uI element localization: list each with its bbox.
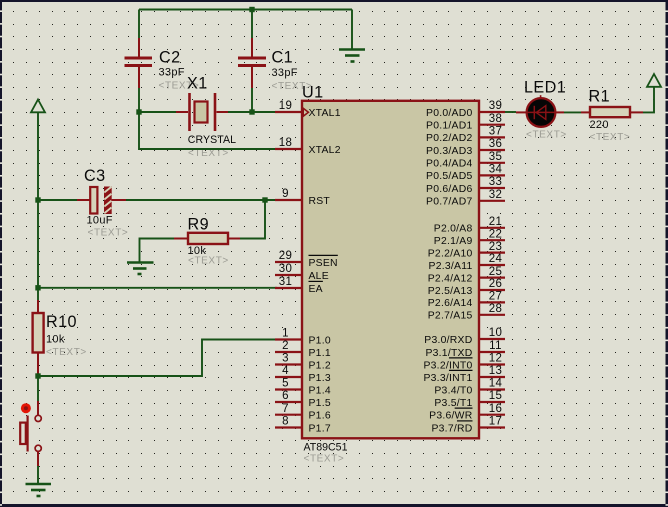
wire button node to P1.0 pin (staircase) <box>38 340 277 377</box>
label X1 <box>187 75 208 93</box>
push button switch <box>20 401 41 466</box>
XTAL1 clock input arrow on pin 19 <box>303 108 308 116</box>
svg-text:<TEXT>: <TEXT> <box>590 132 631 143</box>
svg-text:C3: C3 <box>84 167 106 185</box>
svg-text:29: 29 <box>279 250 293 262</box>
svg-text:10: 10 <box>489 327 503 339</box>
pin 26 P2.5/A13 (right) <box>428 278 505 297</box>
svg-text:28: 28 <box>489 303 503 315</box>
wire R1 to VCC arrow <box>643 87 654 112</box>
window border right with ruler ticks <box>666 0 668 507</box>
svg-text:R9: R9 <box>188 216 210 234</box>
wire pin39 to LED1 <box>505 111 516 113</box>
svg-text:14: 14 <box>489 378 503 390</box>
pin 3 P1.2 (left) <box>275 353 331 372</box>
svg-text:<TEXT>: <TEXT> <box>304 454 345 465</box>
value 33pF for C2 <box>159 67 185 79</box>
svg-text:P0.5/AD5: P0.5/AD5 <box>426 171 472 182</box>
pin 17 P3.7/RD (right) <box>431 416 505 435</box>
svg-text:27: 27 <box>489 291 503 303</box>
svg-text:P0.7/AD7: P0.7/AD7 <box>426 197 472 208</box>
button state indicator (red dot) <box>21 403 31 413</box>
label R9 <box>188 216 210 234</box>
ground (bottom left) <box>26 484 52 496</box>
svg-text:<TEXT>: <TEXT> <box>46 347 87 358</box>
svg-text:P1.2: P1.2 <box>309 360 331 371</box>
svg-text:PSEN: PSEN <box>309 258 338 269</box>
svg-text:<TEXT>: <TEXT> <box>526 130 567 141</box>
pin 19 XTAL1 (left) <box>275 100 341 119</box>
junction VCC rail to C3 <box>35 197 40 202</box>
svg-text:33: 33 <box>489 176 503 188</box>
junction RST node to R9 branch <box>262 197 267 202</box>
svg-text:P2.4/A12: P2.4/A12 <box>428 273 473 284</box>
svg-text:P3.4/T0: P3.4/T0 <box>434 385 472 396</box>
pin 11 P3.1/TXD (right) <box>425 340 505 359</box>
svg-text:P1.3: P1.3 <box>309 373 331 384</box>
svg-text:10uF: 10uF <box>87 215 113 227</box>
capacitor C3 (electrolytic 10uF) <box>77 187 126 215</box>
svg-text:<TEXT>: <TEXT> <box>88 228 129 239</box>
text placeholder for C3 <box>88 228 129 239</box>
pin 29 PSEN (left) <box>275 250 338 269</box>
svg-text:3: 3 <box>282 353 289 365</box>
crystal X1 <box>176 93 228 131</box>
svg-text:P2.3/A11: P2.3/A11 <box>429 261 473 272</box>
label C2 <box>159 49 181 67</box>
pin 38 P0.1/AD1 (right) <box>426 113 505 132</box>
svg-text:P0.0/AD0: P0.0/AD0 <box>426 108 472 119</box>
svg-text:32: 32 <box>489 189 503 201</box>
wire R10/button node down to button <box>37 376 39 401</box>
value 220 for R1 <box>590 119 609 131</box>
svg-text:P3.0/RXD: P3.0/RXD <box>424 335 472 346</box>
label C1 <box>272 49 294 67</box>
pin 33 P0.6/AD6 (right) <box>426 176 505 195</box>
svg-text:39: 39 <box>489 100 503 112</box>
pin 10 P3.0/RXD (right) <box>424 327 505 346</box>
svg-text:12: 12 <box>489 353 503 365</box>
wire VCC rail to EA pin <box>38 287 277 289</box>
pin 14 P3.4/T0 (right) <box>434 378 505 397</box>
window border bottom <box>0 504 668 507</box>
pin 6 P1.5 (left) <box>275 390 331 409</box>
pin 36 P0.3/AD3 (right) <box>426 138 505 157</box>
label C3 <box>84 167 106 185</box>
svg-text:P2.5/A13: P2.5/A13 <box>428 286 473 297</box>
LED D1 LED1 <box>516 95 564 127</box>
pin 16 P3.6/WR (right) <box>429 403 505 422</box>
svg-text:XTAL1: XTAL1 <box>309 108 341 119</box>
value AT89C51 for U1 <box>304 442 348 454</box>
svg-text:11: 11 <box>489 340 502 352</box>
svg-text:U1: U1 <box>302 84 324 102</box>
svg-text:XTAL2: XTAL2 <box>309 145 341 156</box>
svg-text:5: 5 <box>282 378 289 390</box>
label R10 <box>46 313 77 331</box>
svg-text:P1.4: P1.4 <box>309 385 331 396</box>
text placeholder for C1 <box>272 81 313 92</box>
wire crystal right to XTAL1 pin <box>228 111 277 113</box>
value CRYSTAL for X1 <box>188 134 236 146</box>
svg-text:P3.5/T1: P3.5/T1 <box>434 398 472 409</box>
svg-text:P2.7/A15: P2.7/A15 <box>428 311 473 322</box>
svg-text:6: 6 <box>282 390 289 402</box>
svg-text:C1: C1 <box>272 49 294 67</box>
pin 39 P0.0/AD0 (right) <box>426 100 505 119</box>
svg-text:1: 1 <box>282 328 289 340</box>
svg-text:33pF: 33pF <box>272 67 298 79</box>
svg-text:7: 7 <box>282 403 289 415</box>
svg-text:P3.7/RD: P3.7/RD <box>431 423 472 434</box>
pin 2 P1.1 (left) <box>275 340 331 359</box>
wire C2 bottom lead to crystal node <box>138 88 140 112</box>
pin 9 RST (left) <box>275 188 330 207</box>
pin 23 P2.2/A10 (right) <box>428 241 505 260</box>
svg-text:R1: R1 <box>589 88 611 106</box>
svg-text:34: 34 <box>489 164 503 176</box>
label LED1 <box>524 79 566 97</box>
svg-text:10k: 10k <box>46 334 65 346</box>
value 10k for R10 <box>46 334 65 346</box>
svg-text:9: 9 <box>282 188 289 200</box>
ground (below R9) <box>127 263 154 275</box>
wire R9 left lead to ground <box>140 239 175 262</box>
pin 12 P3.2/INT0 (right) <box>423 353 505 372</box>
pin 7 P1.6 (left) <box>275 403 331 422</box>
pin 27 P2.6/A14 (right) <box>428 291 505 310</box>
pin 8 P1.7 (left) <box>275 416 331 435</box>
svg-text:26: 26 <box>489 278 503 290</box>
svg-text:30: 30 <box>279 263 293 275</box>
svg-text:P0.4/AD4: P0.4/AD4 <box>426 159 472 170</box>
pin 21 P2.0/A8 (right) <box>434 216 505 235</box>
pin 32 P0.7/AD7 (right) <box>426 189 505 208</box>
capacitor C2 <box>125 57 153 89</box>
wire VCC rail to C3 left lead <box>38 199 77 201</box>
pin 37 P0.2/AD2 (right) <box>426 126 505 145</box>
svg-text:X1: X1 <box>187 75 208 93</box>
svg-text:P3.2/INT0: P3.2/INT0 <box>423 360 472 371</box>
window border top <box>0 0 668 2</box>
junction at crystal left node <box>136 109 141 114</box>
wire crystal left to C2 node <box>139 111 176 113</box>
text placeholder for R1 <box>590 132 631 143</box>
svg-text:21: 21 <box>489 216 503 228</box>
svg-text:33pF: 33pF <box>159 67 185 79</box>
svg-text:23: 23 <box>489 241 503 253</box>
svg-text:220: 220 <box>590 119 609 131</box>
pin 22 P2.1/A9 (right) <box>434 228 505 247</box>
wire RST node down to R9 right lead <box>240 200 265 239</box>
text placeholder for R9 <box>188 256 229 267</box>
svg-text:ALE: ALE <box>309 271 329 282</box>
svg-text:17: 17 <box>489 416 503 428</box>
wire top rail from C2 to C1 to ground <box>139 9 352 11</box>
text placeholder for LED1 <box>526 130 567 141</box>
svg-text:P3.3/INT1: P3.3/INT1 <box>423 373 472 384</box>
svg-text:25: 25 <box>489 266 503 278</box>
wire C1 bottom lead to XTAL1 node <box>251 88 253 112</box>
text placeholder for X1 <box>188 148 229 159</box>
svg-text:13: 13 <box>489 365 503 377</box>
svg-text:P0.1/AD1: P0.1/AD1 <box>426 121 472 132</box>
wire C2 node down to XTAL2 pin <box>139 112 277 149</box>
svg-text:P1.1: P1.1 <box>309 348 331 359</box>
microcontroller U1 AT89C51 body <box>302 101 479 439</box>
pin 28 P2.7/A15 (right) <box>428 303 505 322</box>
svg-text:P0.3/AD3: P0.3/AD3 <box>426 146 472 157</box>
pin 31 EA (left) <box>275 276 323 295</box>
svg-text:<TEXT>: <TEXT> <box>188 256 229 267</box>
pin 13 P3.3/INT1 (right) <box>423 365 505 384</box>
svg-text:C2: C2 <box>159 49 181 67</box>
text placeholder for U1 <box>304 454 345 465</box>
pin 24 P2.3/A11 (right) <box>429 253 505 272</box>
svg-text:P2.0/A8: P2.0/A8 <box>434 224 473 235</box>
wire LED1 to R1 <box>564 111 581 113</box>
svg-text:35: 35 <box>489 151 503 163</box>
wire C3 to RST pin <box>126 199 277 201</box>
svg-text:LED1: LED1 <box>524 79 566 97</box>
pin 15 P3.5/T1 (right) <box>434 390 505 409</box>
text placeholder for C2 <box>159 81 200 92</box>
svg-text:4: 4 <box>282 365 289 377</box>
svg-text:24: 24 <box>489 253 503 265</box>
svg-text:P2.2/A10: P2.2/A10 <box>428 248 473 259</box>
label R1 <box>589 88 611 106</box>
wire C1 top lead <box>251 10 253 58</box>
pin 30 ALE (left) <box>275 263 329 282</box>
svg-text:18: 18 <box>279 137 293 149</box>
resistor R1 <box>581 107 643 117</box>
svg-text:19: 19 <box>279 100 293 112</box>
junction at XTAL1 node under C1 <box>249 109 254 114</box>
pin 1 P1.0 (left) <box>275 328 331 347</box>
pin 34 P0.5/AD5 (right) <box>426 164 505 183</box>
svg-text:P1.6: P1.6 <box>309 411 331 422</box>
window border left with ruler ticks <box>0 0 2 507</box>
pin 4 P1.3 (left) <box>275 365 331 384</box>
svg-text:RST: RST <box>309 196 331 207</box>
svg-text:P3.1/TXD: P3.1/TXD <box>425 348 472 359</box>
svg-text:22: 22 <box>489 228 503 240</box>
svg-text:P1.7: P1.7 <box>309 423 331 434</box>
svg-text:CRYSTAL: CRYSTAL <box>188 134 236 146</box>
pin 25 P2.4/A12 (right) <box>428 266 505 285</box>
value 10k for R9 <box>188 245 207 257</box>
power VCC (top left arrow) <box>31 100 45 289</box>
resistor R10 <box>33 288 44 375</box>
svg-text:38: 38 <box>489 113 503 125</box>
svg-text:P0.6/AD6: P0.6/AD6 <box>426 184 472 195</box>
svg-text:36: 36 <box>489 138 503 150</box>
text placeholder for R10 <box>46 347 87 358</box>
svg-text:16: 16 <box>489 403 503 415</box>
pin 35 P0.4/AD4 (right) <box>426 151 505 170</box>
label U1 <box>302 84 324 102</box>
svg-text:P2.6/A14: P2.6/A14 <box>428 298 473 309</box>
ground (top right) <box>339 10 365 62</box>
wire button to ground <box>37 466 39 484</box>
resistor R9 <box>174 233 240 244</box>
svg-text:R10: R10 <box>46 313 77 331</box>
junction at top rail over C1 <box>249 7 254 12</box>
svg-text:P2.1/A9: P2.1/A9 <box>434 236 473 247</box>
svg-text:15: 15 <box>489 390 503 402</box>
svg-text:37: 37 <box>489 126 503 138</box>
svg-text:31: 31 <box>279 276 293 288</box>
junction R10 bottom to P1.0 wire <box>35 373 40 378</box>
svg-text:P3.6/WR: P3.6/WR <box>429 411 473 422</box>
pin 18 XTAL2 (left) <box>275 137 341 156</box>
capacitor C1 <box>238 57 266 89</box>
value 10uF for C3 <box>87 215 113 227</box>
wire C2 top lead <box>138 10 140 58</box>
value 33pF for C1 <box>272 67 298 79</box>
junction VCC rail to EA wire <box>35 285 40 290</box>
svg-text:8: 8 <box>282 416 289 428</box>
svg-text:P1.0: P1.0 <box>309 335 331 346</box>
svg-text:P0.2/AD2: P0.2/AD2 <box>426 133 472 144</box>
power VCC (top right arrow) <box>647 74 661 87</box>
svg-text:AT89C51: AT89C51 <box>304 442 348 454</box>
svg-text:P1.5: P1.5 <box>309 398 331 409</box>
pin 5 P1.4 (left) <box>275 378 331 397</box>
svg-text:EA: EA <box>309 284 323 295</box>
svg-text:2: 2 <box>282 340 289 352</box>
